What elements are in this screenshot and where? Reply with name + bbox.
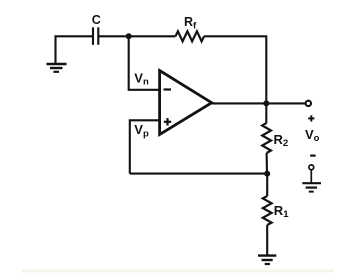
terminal Vo+ (306, 101, 311, 106)
resistor R2 (262, 123, 271, 153)
wire (204, 36, 266, 103)
wire (129, 36, 160, 90)
wire (266, 225, 268, 255)
svg-text:Rf: Rf (184, 15, 197, 31)
svg-text:R2: R2 (274, 132, 289, 149)
wire (56, 36, 93, 63)
wire (212, 102, 305, 104)
node A (inverting input junction) (126, 33, 132, 39)
resistor Rf (176, 31, 205, 41)
resistor R1 (263, 196, 272, 225)
wire (130, 173, 267, 175)
label plus (308, 115, 314, 121)
wire (130, 120, 160, 173)
svg-text:C: C (92, 13, 101, 27)
op-amp plus input marking (164, 118, 171, 125)
op-amp minus input marking (164, 88, 172, 90)
svg-text:Vn: Vn (134, 70, 149, 87)
svg-text:Vp: Vp (134, 122, 149, 139)
ground (47, 64, 67, 72)
wire (99, 35, 129, 37)
ground (258, 256, 276, 264)
svg-text:R1: R1 (274, 203, 289, 220)
ground (302, 183, 321, 191)
wire (129, 35, 176, 37)
wire (265, 103, 267, 123)
capacitor C (93, 27, 98, 45)
terminal Vo- reference (309, 165, 314, 170)
svg-text:Vo: Vo (305, 127, 320, 144)
wire (266, 153, 268, 174)
wire (266, 174, 268, 196)
node output junction (263, 100, 269, 106)
node B (feedback node) (264, 171, 270, 177)
wire (310, 170, 312, 183)
label minus (310, 155, 315, 157)
op-amp U1 (160, 71, 212, 135)
